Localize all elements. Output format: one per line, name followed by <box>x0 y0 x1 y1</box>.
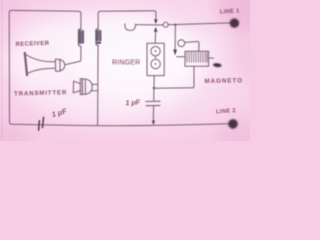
wire: lower contact down to ringer <box>154 32 156 44</box>
wire: lever branch down to magneto crank <box>174 25 176 50</box>
node: ringer/magneto junction <box>153 87 155 89</box>
magneto generator box <box>185 51 209 66</box>
svg-text:MAGNETO: MAGNETO <box>204 77 243 85</box>
svg-text:RINGER: RINGER <box>112 60 140 67</box>
magneto winding hatch <box>187 52 207 62</box>
wire: coil L2 bottom down to bottom wire <box>97 45 100 125</box>
terminal LINE 2 <box>228 119 238 129</box>
svg-text:1 μF: 1 μF <box>125 97 141 107</box>
node: lever/magneto branch <box>174 24 176 26</box>
transmitter <box>73 79 98 95</box>
ringer gong lower <box>151 59 160 68</box>
crank arrow <box>173 50 177 56</box>
photo background <box>0 0 250 141</box>
wire: crank link to box <box>177 56 185 58</box>
wire: junction down to capacitor C2 <box>153 88 155 101</box>
capacitor C2 plates <box>146 101 160 106</box>
wire: ringer bottom to junction <box>153 76 155 88</box>
wire: hook lever to pivot <box>136 24 163 26</box>
wire: junction to magneto bottom <box>154 66 194 88</box>
spring arrow lower <box>154 27 158 32</box>
svg-text:TRANSMITTER: TRANSMITTER <box>14 89 67 97</box>
receiver horn <box>25 53 65 75</box>
spring arrow upper <box>154 19 158 24</box>
capacitor C1 plates (bottom left, in series) <box>39 117 44 130</box>
wire: coil2 top to hook-switch corner <box>98 11 156 29</box>
wire: coil L1 bottom to receiver cap <box>65 46 81 64</box>
wire: crank to box top <box>185 41 199 51</box>
ringer clapper dot <box>155 57 156 58</box>
crank knob circle <box>178 40 185 47</box>
ringer box <box>147 43 164 75</box>
terminal LINE 1 <box>230 18 239 27</box>
wire: pivot to LINE 1 terminal <box>168 23 230 25</box>
wire: left loop (top wire, left side, bottom wire) <box>9 10 229 125</box>
svg-text:RECEIVER: RECEIVER <box>15 41 49 48</box>
arrow at bottom junction <box>152 121 155 126</box>
ringer gong upper <box>151 47 160 56</box>
pivot circle <box>163 22 168 27</box>
coil L2 (induction coil secondary) <box>96 29 101 46</box>
ink blob <box>213 63 222 68</box>
wire: capacitor C2 to bottom wire <box>152 106 154 122</box>
hook (switch hook) <box>125 24 136 31</box>
coil L1 (induction coil primary) <box>78 29 83 46</box>
magneto right stub <box>209 57 214 59</box>
